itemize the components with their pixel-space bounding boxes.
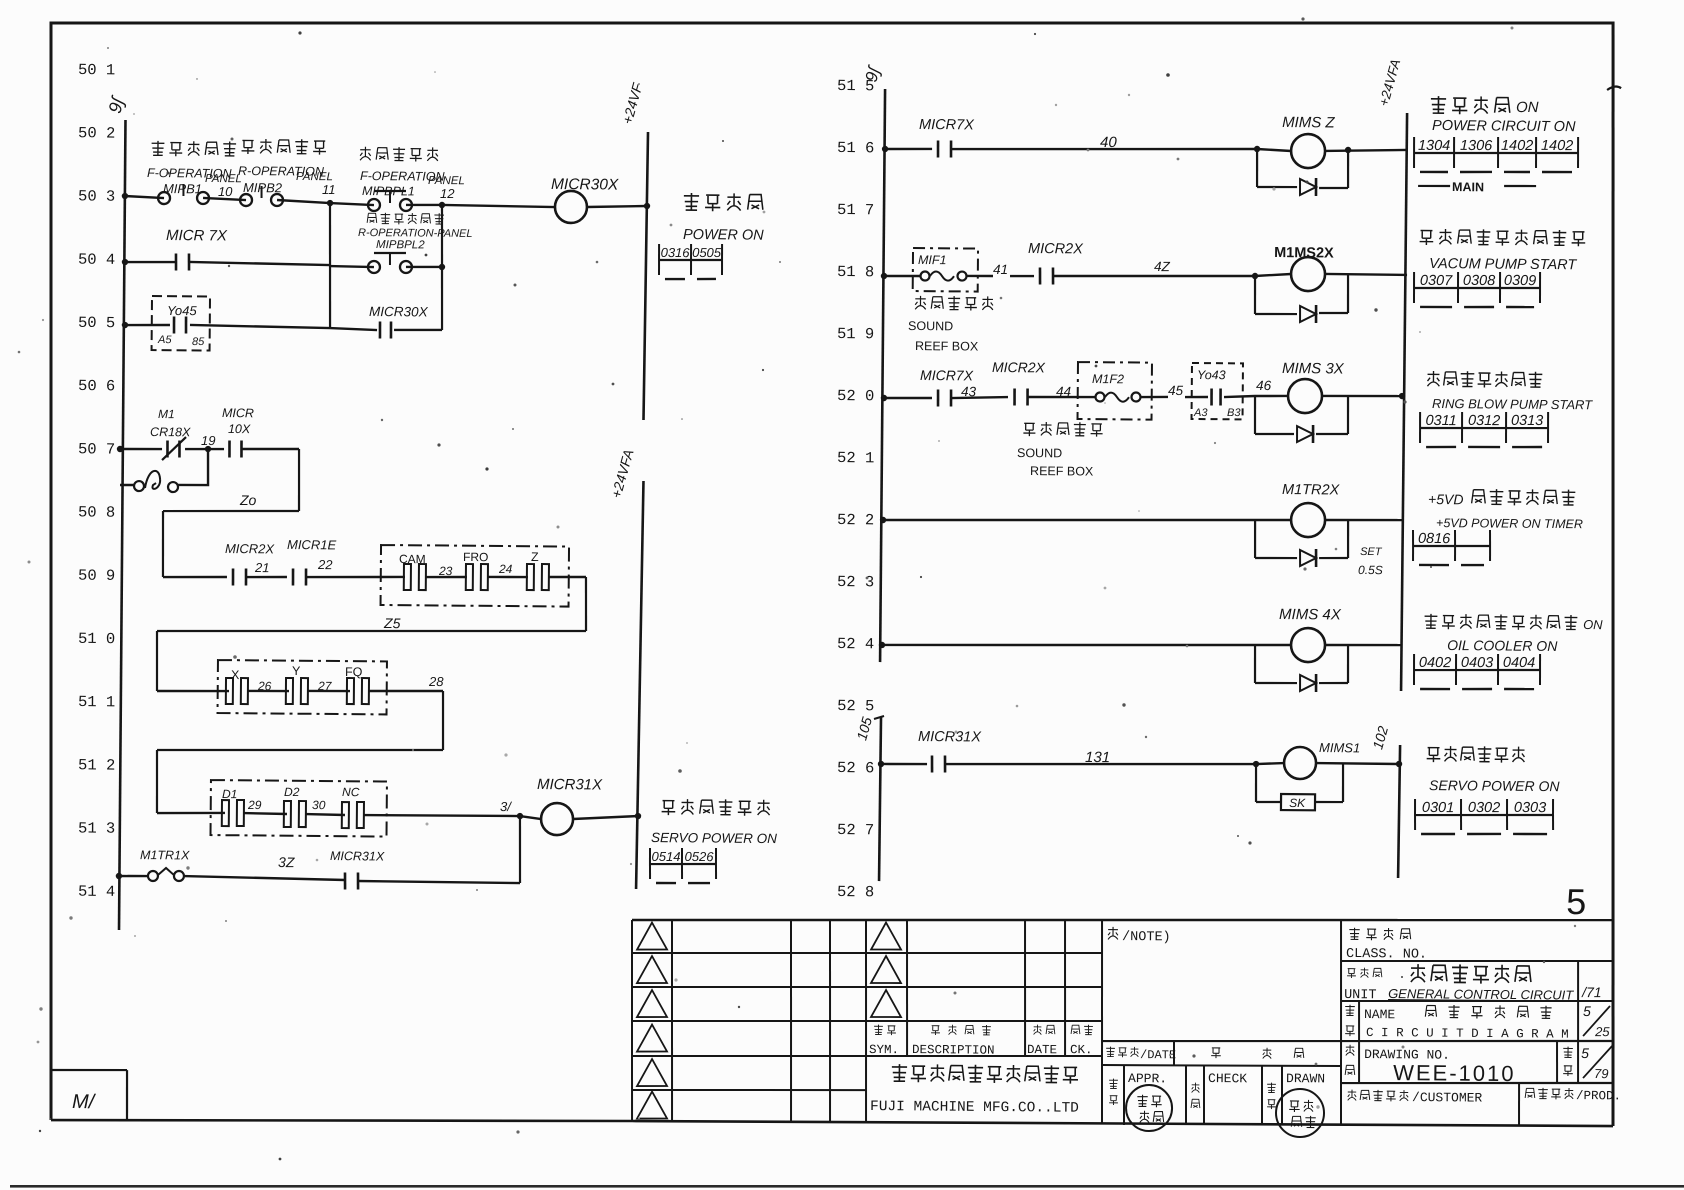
svg-text:REEF BOX: REEF BOX (915, 339, 979, 354)
svg-text:MICR2X: MICR2X (225, 541, 276, 556)
svg-text:MIPB1: MIPB1 (163, 181, 202, 196)
svg-text:MICR31X: MICR31X (537, 776, 603, 794)
svg-text:M1F2: M1F2 (1092, 372, 1124, 386)
svg-text:D2: D2 (284, 785, 300, 799)
svg-text:51 4: 51 4 (78, 883, 115, 901)
svg-text:MIF1: MIF1 (918, 253, 947, 267)
svg-text:M1TR2X: M1TR2X (1282, 482, 1341, 498)
svg-text:A5: A5 (157, 334, 172, 346)
svg-text:R-OPERATION-PANEL: R-OPERATION-PANEL (358, 227, 473, 240)
svg-text:5: 5 (1566, 881, 1586, 922)
svg-text:50 1: 50 1 (78, 61, 115, 79)
svg-text:FQ: FQ (345, 665, 363, 679)
svg-text:0311: 0311 (1425, 413, 1456, 429)
svg-text:0301: 0301 (1422, 800, 1454, 816)
svg-text:0309: 0309 (1504, 273, 1536, 289)
svg-text:Yo43: Yo43 (1197, 368, 1226, 382)
svg-text:FUJI MACHINE MFG.CO..LTD: FUJI MACHINE MFG.CO..LTD (870, 1099, 1079, 1117)
svg-text:SERVO POWER ON: SERVO POWER ON (651, 830, 777, 846)
svg-text:SERVO POWER ON: SERVO POWER ON (1429, 777, 1560, 794)
svg-text:DESCRIPTION: DESCRIPTION (912, 1043, 995, 1058)
svg-text:29: 29 (247, 798, 262, 812)
svg-text:MICR2X: MICR2X (992, 359, 1046, 375)
svg-text:VACUM PUMP START: VACUM PUMP START (1429, 256, 1577, 273)
svg-text:CR18X: CR18X (150, 425, 191, 439)
svg-text:0403: 0403 (1461, 655, 1493, 671)
svg-text:10X: 10X (228, 422, 251, 436)
svg-text:MIMS 4X: MIMS 4X (1279, 606, 1342, 624)
svg-text:50 7: 50 7 (78, 440, 115, 458)
svg-text:MIMS1: MIMS1 (1319, 740, 1360, 755)
svg-text:0312: 0312 (1468, 413, 1500, 429)
svg-text:51 5: 51 5 (837, 77, 874, 95)
svg-text:/NOTE): /NOTE) (1122, 930, 1171, 945)
svg-text:MIPBPL1: MIPBPL1 (362, 184, 415, 198)
svg-text:Y: Y (292, 664, 301, 678)
svg-text:SET: SET (1360, 546, 1383, 558)
svg-text:50 8: 50 8 (78, 503, 115, 521)
svg-text:52 3: 52 3 (837, 573, 874, 591)
svg-text:WEE-1010: WEE-1010 (1393, 1060, 1516, 1086)
svg-text:0308: 0308 (1463, 273, 1495, 289)
svg-text:CLASS. NO.: CLASS. NO. (1346, 947, 1427, 963)
svg-text:MICR7X: MICR7X (920, 367, 974, 383)
svg-text:51 0: 51 0 (78, 630, 115, 648)
svg-text:SYM.: SYM. (869, 1043, 899, 1057)
svg-text:52 6: 52 6 (837, 759, 874, 777)
svg-text:MICR31X: MICR31X (330, 849, 385, 863)
svg-text:0307: 0307 (1420, 273, 1453, 289)
svg-text:40: 40 (1100, 134, 1117, 151)
svg-text:GENERAL CONTROL CIRCUIT: GENERAL CONTROL CIRCUIT (1388, 986, 1574, 1003)
svg-text:52 2: 52 2 (837, 511, 874, 529)
svg-text:M/: M/ (72, 1091, 97, 1113)
svg-text:19: 19 (201, 433, 216, 448)
svg-text:POWER ON: POWER ON (683, 227, 764, 244)
svg-text:DRAWN: DRAWN (1286, 1071, 1325, 1086)
svg-text:/71: /71 (1581, 984, 1602, 1000)
svg-text:50 9: 50 9 (78, 567, 115, 585)
svg-text:50 5: 50 5 (78, 314, 115, 332)
svg-text:NC: NC (342, 785, 360, 799)
svg-text:D1: D1 (222, 787, 237, 801)
svg-text:12: 12 (440, 186, 455, 201)
svg-text:MICR: MICR (222, 406, 254, 420)
svg-text:44: 44 (1056, 384, 1071, 399)
svg-text:45: 45 (1168, 383, 1184, 398)
svg-text:+5VD: +5VD (1428, 491, 1464, 507)
svg-text:28: 28 (428, 674, 444, 689)
svg-text:0505: 0505 (692, 245, 722, 260)
svg-text:0313: 0313 (1511, 413, 1543, 429)
svg-text:1402: 1402 (1501, 138, 1533, 154)
svg-text:52 8: 52 8 (837, 883, 874, 901)
svg-text:NAME: NAME (1364, 1007, 1396, 1022)
svg-text:52 4: 52 4 (837, 635, 874, 653)
svg-text:RING BLOW PUMP START: RING BLOW PUMP START (1432, 396, 1593, 412)
svg-text:0514: 0514 (652, 849, 681, 864)
svg-text:Z5: Z5 (383, 615, 401, 631)
svg-text:/PROD.: /PROD. (1576, 1089, 1621, 1103)
svg-text:1306: 1306 (1460, 138, 1493, 154)
svg-text:C I R C U I T D I A G R A M: C I R C U I T D I A G R A M (1366, 1026, 1569, 1042)
svg-text:3Z: 3Z (278, 854, 295, 870)
svg-text:4Z: 4Z (1154, 259, 1171, 274)
svg-text:1304: 1304 (1418, 138, 1450, 154)
svg-text:Yo45: Yo45 (167, 303, 198, 318)
svg-text:MIPB2: MIPB2 (243, 180, 283, 195)
svg-text:M1MS2X: M1MS2X (1274, 245, 1334, 262)
svg-text:131: 131 (1085, 749, 1110, 766)
svg-text:51 7: 51 7 (837, 201, 874, 219)
svg-text:UNIT: UNIT (1344, 988, 1377, 1003)
svg-text:X: X (231, 668, 240, 682)
svg-text:21: 21 (254, 560, 270, 575)
svg-text:50 4: 50 4 (78, 251, 115, 269)
svg-text:MICR31X: MICR31X (918, 729, 982, 746)
svg-text:OIL COOLER ON: OIL COOLER ON (1447, 637, 1558, 654)
svg-text:/CUSTOMER: /CUSTOMER (1412, 1090, 1483, 1106)
svg-text:52 1: 52 1 (837, 449, 874, 467)
svg-text:0526: 0526 (685, 849, 715, 864)
svg-text:51 8: 51 8 (837, 263, 874, 281)
svg-text:0816: 0816 (1418, 531, 1451, 547)
svg-text:0404: 0404 (1503, 655, 1535, 671)
svg-text:Z: Z (531, 550, 539, 564)
svg-text:Zo: Zo (239, 492, 257, 508)
svg-text:M1TR1X: M1TR1X (140, 848, 190, 862)
svg-text:51 1: 51 1 (78, 693, 115, 711)
svg-text:5: 5 (1583, 1003, 1591, 1019)
svg-text:3/: 3/ (500, 799, 512, 814)
svg-text:51 2: 51 2 (78, 756, 115, 774)
svg-text:0402: 0402 (1419, 655, 1451, 671)
svg-text:52 7: 52 7 (837, 821, 874, 839)
svg-text:REEF BOX: REEF BOX (1030, 464, 1094, 479)
svg-text:5: 5 (1581, 1045, 1589, 1061)
svg-text:DATE: DATE (1027, 1043, 1057, 1057)
svg-text:22: 22 (317, 557, 333, 572)
svg-text:POWER CIRCUIT ON: POWER CIRCUIT ON (1432, 118, 1576, 135)
svg-text:50 6: 50 6 (78, 377, 115, 395)
svg-text:CK.: CK. (1070, 1043, 1093, 1057)
svg-text:MIPBPL2: MIPBPL2 (376, 239, 425, 251)
svg-text:SK: SK (1289, 796, 1306, 810)
svg-text:51 6: 51 6 (837, 139, 874, 157)
svg-text:0302: 0302 (1468, 800, 1500, 816)
svg-text:APPR.: APPR. (1128, 1071, 1167, 1086)
svg-text:52 5: 52 5 (837, 697, 874, 715)
svg-text:0.5S: 0.5S (1358, 563, 1383, 577)
svg-text:ON: ON (1516, 99, 1539, 116)
svg-text:26: 26 (257, 679, 272, 693)
svg-text:MIMS 3X: MIMS 3X (1282, 360, 1345, 378)
svg-text:MICR2X: MICR2X (1028, 241, 1084, 257)
svg-text:27: 27 (317, 679, 333, 693)
svg-text:23: 23 (438, 564, 453, 578)
svg-text:MICR 7X: MICR 7X (166, 227, 228, 245)
svg-text:B3: B3 (1227, 407, 1241, 419)
svg-text:79: 79 (1594, 1066, 1609, 1081)
svg-text:41: 41 (993, 262, 1008, 277)
svg-text:ON: ON (1583, 617, 1603, 632)
svg-text:0316: 0316 (661, 245, 691, 260)
svg-text:MICR30X: MICR30X (369, 304, 429, 319)
svg-text:+5VD POWER ON TIMER: +5VD POWER ON TIMER (1436, 516, 1583, 531)
svg-text:CAM: CAM (399, 552, 426, 566)
svg-text:FRO: FRO (463, 550, 488, 564)
svg-text:43: 43 (961, 384, 977, 399)
svg-text:1402: 1402 (1541, 138, 1573, 154)
svg-text:30: 30 (312, 798, 326, 812)
svg-text:M1: M1 (158, 407, 175, 421)
svg-text:50 2: 50 2 (78, 124, 115, 142)
svg-text:10: 10 (218, 184, 233, 199)
svg-text:MIMS Z: MIMS Z (1282, 114, 1335, 131)
svg-text:SOUND: SOUND (908, 319, 953, 333)
svg-text:SOUND: SOUND (1017, 446, 1062, 460)
svg-text:A3: A3 (1193, 407, 1208, 419)
svg-text:MICR7X: MICR7X (919, 117, 975, 133)
svg-text:25: 25 (1594, 1024, 1610, 1039)
svg-text:24: 24 (498, 562, 513, 576)
svg-text:MICR1E: MICR1E (287, 537, 337, 552)
svg-text:52 0: 52 0 (837, 387, 874, 405)
svg-text:0303: 0303 (1514, 800, 1546, 816)
svg-text:50 3: 50 3 (78, 187, 115, 205)
svg-text:51 9: 51 9 (837, 325, 874, 343)
svg-text:51 3: 51 3 (78, 819, 115, 837)
svg-text:11: 11 (322, 182, 336, 197)
svg-text:MICR30X: MICR30X (551, 176, 619, 194)
svg-text:MAIN: MAIN (1452, 180, 1484, 194)
svg-text:CHECK: CHECK (1208, 1071, 1247, 1086)
svg-text:46: 46 (1256, 378, 1272, 393)
svg-text:85: 85 (192, 336, 205, 348)
